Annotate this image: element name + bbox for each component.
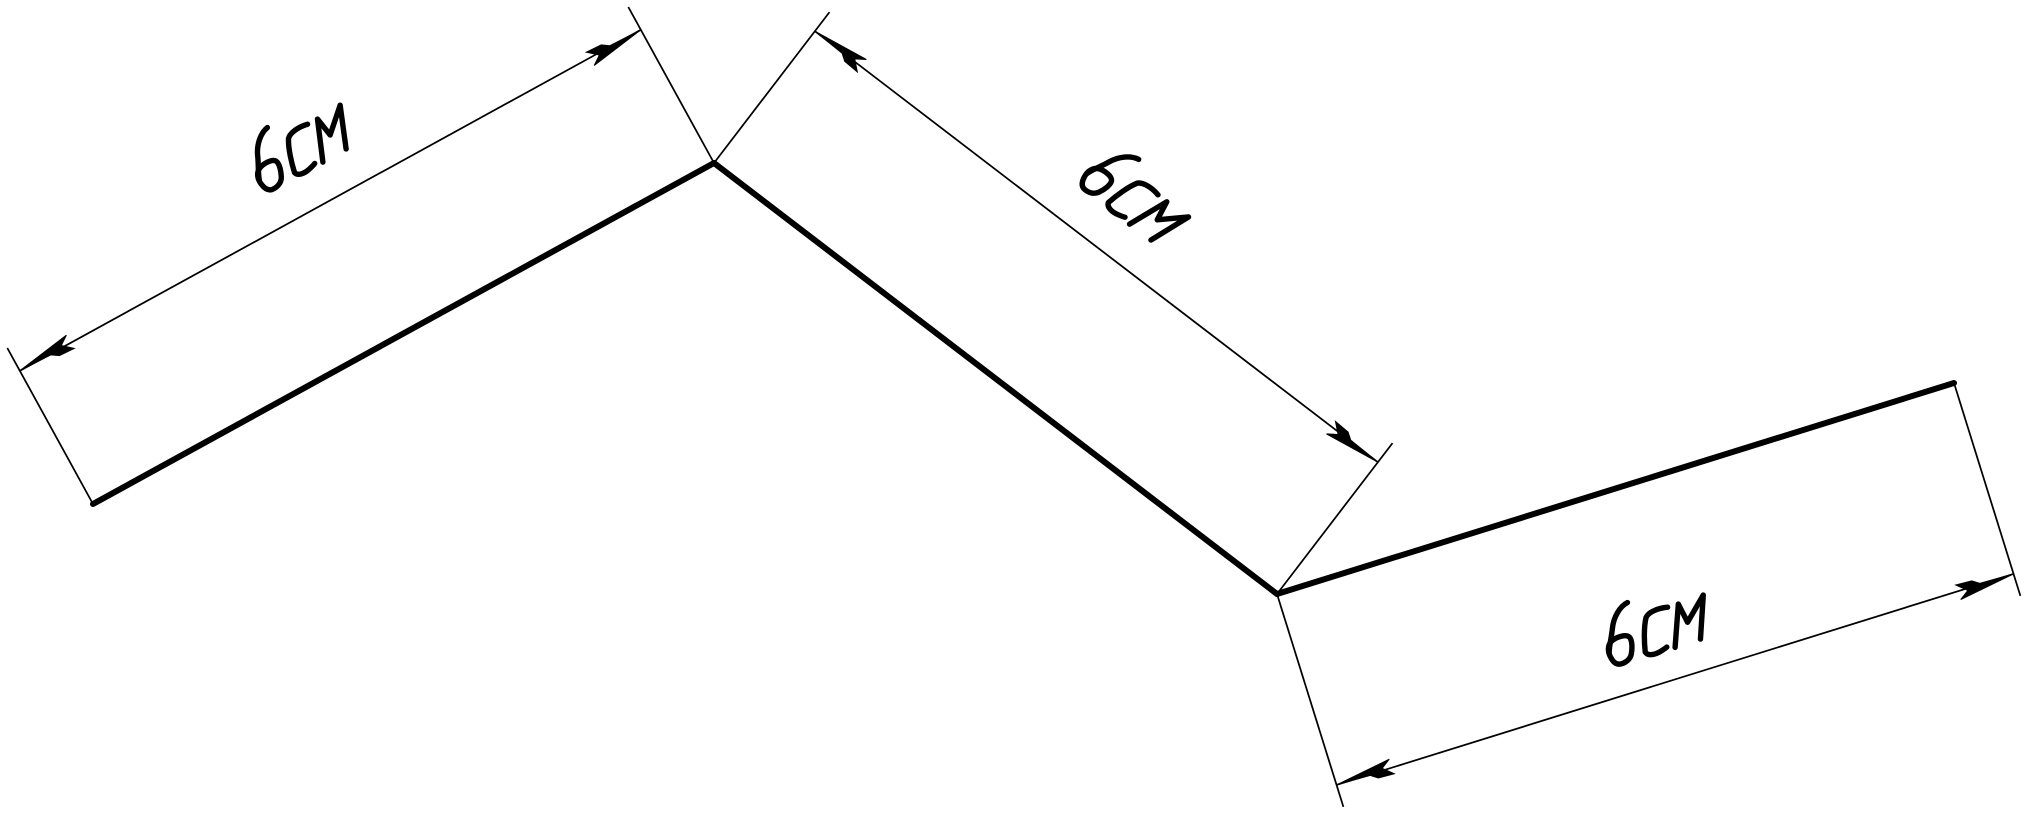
dimension line 3 (1337, 574, 2014, 785)
extension line dim2 left (714, 12, 830, 163)
extension line dim3 right (1954, 383, 2020, 596)
segment 2 (6 cm) (714, 163, 1277, 594)
arrowhead dim2 bottom (1326, 421, 1382, 469)
label 6см dim2 (1078, 139, 1198, 250)
arrowhead dim1 left (16, 335, 75, 377)
arrowhead dim1 right (586, 24, 645, 66)
label 6см dim1 (239, 92, 361, 194)
arrowhead dim2 top (811, 24, 867, 72)
extension line dim1 left (7, 348, 93, 504)
dimension line 1 (20, 30, 641, 371)
segment 1 (6 cm) (93, 163, 714, 504)
extension line dim3 left (1277, 594, 1343, 807)
dimension line 2 (815, 31, 1378, 462)
arrowhead dim3 left (1334, 759, 1394, 791)
arrowhead dim3 right (1956, 568, 2016, 600)
label 6см dim3 (1596, 580, 1716, 667)
extension line dim2 right (1277, 443, 1393, 594)
segment 3 (6 cm) (1277, 383, 1954, 594)
extension line dim1 right (628, 7, 714, 163)
